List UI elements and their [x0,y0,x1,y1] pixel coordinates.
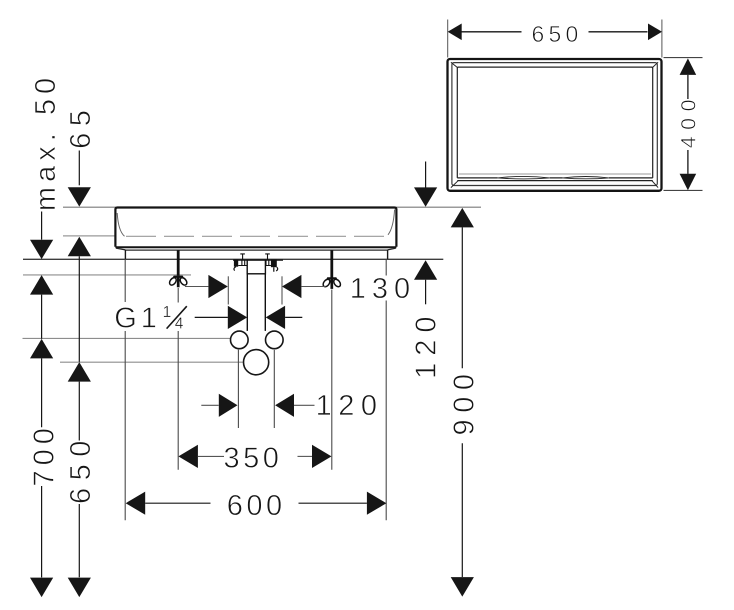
dim max50 upper tail [41,212,43,240]
dim 650 line right segment [589,31,648,33]
drain circle [244,350,269,375]
left hanger extension line (350) [177,288,179,470]
dim 650 arrow left [448,24,462,41]
left hanger bolt [177,250,180,275]
drain flange ticks [242,260,269,265]
dim 600 extension line left [124,260,126,521]
dim 700 line [41,295,43,578]
dim 700 arrow down [30,578,53,598]
dim 400 extension line bottom [664,189,703,191]
dim G1/4 arrow right-pointing [228,306,247,329]
dim 900 arrow up [451,208,474,228]
dim 650 bottom arrow up [68,362,91,382]
drain tail box [247,260,265,274]
svg-text:1: 1 [163,304,172,321]
basin front view body outline [115,208,396,247]
supply circle right [266,331,284,349]
svg-text:700: 700 [28,423,60,486]
dim 120h right tail [294,404,315,406]
basin front view foot top line [125,249,387,251]
right hanger extension line (350) [331,290,333,470]
basin front view foot left edge [124,250,126,259]
dim max50 arrow up [30,275,53,295]
dim 65 arrow down [68,187,91,206]
basin front view bottom edge [115,246,396,248]
left hanger butterfly [168,276,188,288]
wire leader to drain circle (650 level) [60,361,243,363]
svg-text:350: 350 [223,443,282,475]
dim 600 line left segment [145,502,210,504]
basin plan view corner chamfer bottom-right [652,181,658,188]
svg-text:1: 1 [141,303,157,335]
dim 120h arrow left-pointing [275,394,294,417]
dim 130 extension line left [227,276,229,304]
basin plan view outer rim [448,59,662,191]
dim 130 extension line right [281,276,283,304]
wire leader to supply circle (700 level) [23,337,231,339]
dim 120v arrow up [414,260,437,279]
dim 400 arrow down [680,174,697,191]
dim max50 arrow down [30,240,53,259]
dim 65 upper tail [78,151,80,186]
svg-text:65: 65 [65,104,97,149]
svg-text:130: 130 [350,273,416,305]
svg-text:G: G [114,303,137,335]
dim 600 line right segment [299,502,367,504]
dim 350 left tail [198,455,224,457]
dim 130 left tail [185,286,209,288]
dim 130 right tail [301,286,325,288]
dim 120h extension line right [273,350,275,428]
basin front view inner rim curve left [117,213,124,236]
svg-text:max. 50: max. 50 [30,73,62,211]
drain tailpiece right line [264,274,266,331]
drain flange row bottom lines [238,265,271,267]
dim 350 arrow right-pointing [312,445,332,468]
dim G1/4 right tail [285,316,302,318]
dim 120v arrow down [414,187,437,206]
dim 600 arrow right-pointing [367,492,387,515]
dim 130 arrow right-pointing [208,275,227,298]
dim 120h extension line left [237,350,239,428]
basin plan view inner bowl bottom edge segments [457,177,652,179]
dim 120h arrow right-pointing [219,394,238,417]
dim 400 arrow up [680,58,697,75]
dim 400 extension line top [664,57,703,59]
dim 120v lower tail [425,280,427,305]
dim 130 arrow left-pointing [282,275,301,298]
drain left pin hook [234,267,236,271]
basin front view inner dashed contour [126,235,386,237]
basin plan view inner grey contour [459,173,651,175]
svg-text:900: 900 [449,368,481,436]
drain left pin [234,259,238,266]
basin plan view corner chamfer top-right [652,62,658,68]
dim G1/4 left tail [195,316,228,318]
drain tailpiece left line [246,274,248,331]
wire rim reference line L1 [63,206,481,208]
drain T-tick right [265,254,270,260]
basin plan view bottom wave lens right [563,177,609,179]
dim 600 arrow left-pointing [126,492,146,515]
basin plan view corner chamfer bottom-left [451,181,458,188]
svg-text:4: 4 [175,315,184,332]
svg-text:400: 400 [676,93,700,148]
dim 350 arrow left-pointing [178,445,198,468]
dim 650 extension line right [661,20,663,58]
right hanger bolt [330,250,333,277]
basin front view left step diagonal [116,248,125,250]
dim 400 line upper segment [687,75,689,99]
drain T-tick left [240,254,245,260]
dim 65 arrow up [68,237,91,256]
dim G1/4 arrow left-pointing [266,306,285,329]
svg-text:600: 600 [227,490,286,522]
wire mounting line [23,258,443,260]
dim 350 right tail [298,455,313,457]
dim 700 arrow up [30,339,53,359]
svg-text:120: 120 [316,390,384,422]
basin plan view bowl bottom line [457,180,652,182]
dim 650 bottom arrow down [68,578,91,598]
svg-text:650: 650 [65,433,97,504]
wire shelf reference line L2 [63,235,116,237]
dim 900 arrow down [451,577,474,597]
basin front view foot right edge [387,250,389,259]
basin plan view inner bowl edge [457,67,652,178]
dim 120v upper tail [425,162,427,188]
dim 600 extension line right [385,260,387,521]
dim 650 line left segment [462,31,522,33]
basin plan view corner chamfer top-left [451,62,458,68]
svg-text:120: 120 [411,310,443,379]
drain right pin [271,259,277,267]
supply circle left [231,331,249,349]
dim 120h left tail [201,404,218,406]
basin front view right step diagonal [388,248,396,250]
dim 650 arrow right [648,24,662,41]
dim 650 extension line left [447,20,449,58]
drain flange line [233,259,283,261]
basin plan view middle rim line [452,63,657,186]
right hanger butterfly [322,277,342,289]
basin front view inner rim curve right [388,210,395,235]
svg-text:650: 650 [532,21,583,47]
drain right pin hook [274,267,278,272]
dim 650 bottom line [78,256,80,577]
wire lower reference line L4 [23,274,191,276]
dim 400 line lower segment [687,150,689,174]
basin plan view bottom wave lens left [498,176,550,179]
dim 900 line [461,227,463,577]
